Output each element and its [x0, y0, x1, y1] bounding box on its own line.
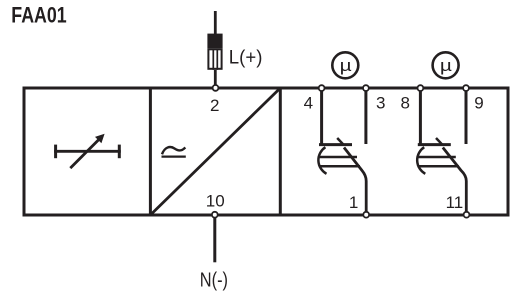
svg-text:8: 8	[400, 94, 409, 113]
svg-text:4: 4	[304, 94, 313, 113]
svg-text:µ: µ	[440, 57, 452, 76]
svg-text:µ: µ	[340, 57, 352, 76]
svg-text:FAA01: FAA01	[11, 4, 66, 28]
svg-text:1: 1	[349, 193, 358, 212]
svg-text:N(-): N(-)	[200, 268, 228, 291]
svg-text:9: 9	[474, 94, 483, 113]
svg-text:10: 10	[206, 192, 225, 211]
svg-text:11: 11	[446, 193, 464, 212]
svg-text:3: 3	[376, 94, 385, 113]
svg-text:2: 2	[210, 96, 219, 115]
svg-text:L(+): L(+)	[229, 46, 263, 67]
